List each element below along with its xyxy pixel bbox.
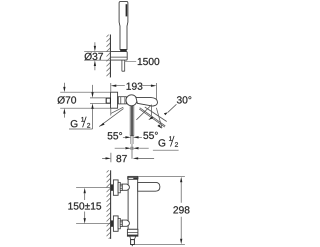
dimension Ø70 arrows: [63, 83, 65, 118]
dimension 150 +-15: [76, 188, 111, 224]
steep tick line: [156, 108, 162, 128]
spout: [136, 98, 158, 106]
top connection union: [122, 184, 129, 190]
dimension 298: [135, 177, 185, 245]
G1/2 left extension lines: [90, 98, 106, 103]
leader 1500: [125, 60, 137, 62]
leader 30 deg: [168, 104, 177, 112]
bottom connection escutcheon: [113, 216, 118, 231]
top connection escutcheon: [113, 180, 118, 195]
G1/2 left arrows: [92, 85, 94, 129]
G1/2 nut width dimension: [115, 147, 149, 149]
outlet taper: [130, 236, 136, 239]
wall hatching bottom: [107, 168, 111, 241]
lever handle: [138, 182, 160, 191]
label G 1/2 right: [171, 136, 175, 147]
outlet pipe below body: [130, 106, 134, 136]
dimension Ø37 arrows: [94, 42, 96, 70]
body top cap: [128, 176, 138, 179]
top connection thread: [111, 184, 114, 190]
dimension 87: [110, 108, 112, 162]
top view supply nipple: [106, 98, 110, 103]
labels as vector outlines: [85, 53, 103, 61]
55 deg left annotation: [99, 107, 123, 126]
bottom connection thread: [111, 220, 114, 226]
wall hatching top: [106, 33, 110, 81]
dimension 193: [111, 83, 157, 100]
grip dark band: [120, 49, 127, 51]
pipe extension lines: [131, 136, 133, 159]
body side view: [128, 176, 138, 229]
wall line top: [109, 35, 111, 78]
wall line bottom: [110, 170, 112, 239]
bottom connection union: [122, 220, 129, 226]
top view escutcheon: [110, 92, 117, 108]
dimension Ø70 extension lines: [60, 92, 110, 108]
wall bracket bar: [110, 52, 127, 61]
bottom connection nipple: [120, 220, 122, 226]
55 deg right annotation: [136, 105, 151, 120]
shower hose: [122, 60, 125, 71]
angle arrowheads: [148, 116, 153, 120]
shower outlet box: [127, 229, 137, 236]
top connection nipple: [120, 184, 122, 190]
dimension Ø37 extension lines: [84, 52, 110, 61]
hand shower head: [119, 2, 128, 50]
label G 1/2 left: [83, 117, 87, 128]
hose stub: [131, 240, 135, 245]
top view connector: [118, 97, 127, 104]
30 deg face lines: [139, 107, 167, 127]
spray face dark strip: [126, 4, 128, 16]
top view body circle: [126, 95, 137, 106]
small arrows at pipe: [123, 136, 142, 138]
